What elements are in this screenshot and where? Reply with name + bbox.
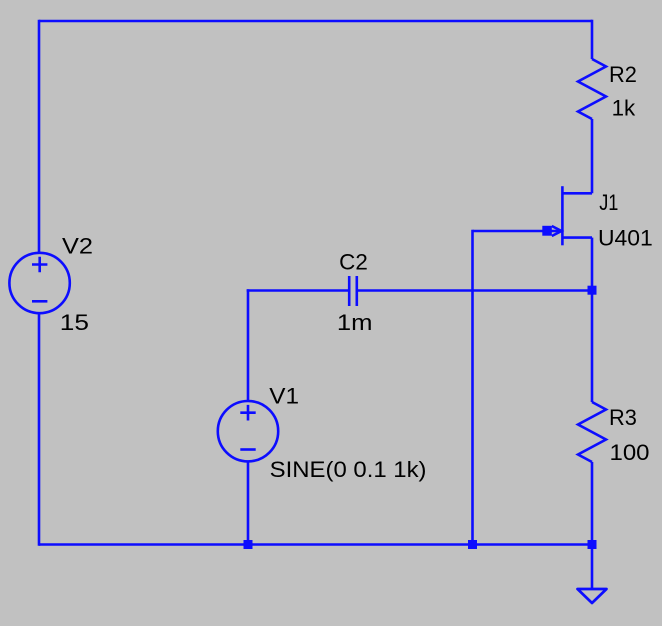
junction ground node [588, 540, 597, 549]
wire V1 bottom [247, 461, 250, 544]
svg-text:100: 100 [610, 440, 650, 465]
junction V1 bottom [244, 540, 253, 549]
svg-text:R3: R3 [609, 405, 637, 430]
junction source node [588, 286, 597, 295]
wire ground stem [591, 545, 594, 590]
transistor J1 (N-JFET) [473, 186, 593, 245]
svg-text:J1: J1 [599, 190, 618, 215]
wire R3 bottom [591, 462, 594, 545]
wire C2 right [357, 289, 592, 292]
svg-text:15: 15 [60, 310, 89, 335]
resistor R2 [578, 59, 606, 119]
voltage source V2 [9, 253, 69, 313]
svg-text:1k: 1k [612, 95, 637, 120]
wire JFET source down [591, 238, 594, 291]
svg-text:C2: C2 [339, 249, 368, 274]
junction gate bottom [468, 540, 477, 549]
svg-text:1m: 1m [337, 310, 373, 335]
wire top rail [39, 20, 592, 23]
capacitor C2 [349, 276, 357, 306]
ground [578, 589, 607, 603]
wire R3 top [591, 290, 594, 402]
wire left rail upper [38, 20, 41, 253]
voltage source V1 [218, 401, 278, 461]
wire gate vertical [471, 230, 474, 545]
svg-text:U401: U401 [598, 225, 653, 250]
wire V1 top vertical [247, 289, 250, 401]
svg-text:SINE(0 0.1 1k): SINE(0 0.1 1k) [270, 457, 427, 482]
wire R2 bottom to drain [591, 119, 594, 193]
svg-text:V2: V2 [62, 234, 93, 259]
wire C2 left [247, 289, 349, 292]
wire right top (to R2) [591, 20, 594, 59]
wire bottom rail [39, 543, 592, 546]
svg-text:V1: V1 [269, 384, 299, 409]
wire left rail lower [38, 313, 41, 546]
svg-text:R2: R2 [609, 62, 637, 87]
resistor R3 [578, 402, 606, 462]
